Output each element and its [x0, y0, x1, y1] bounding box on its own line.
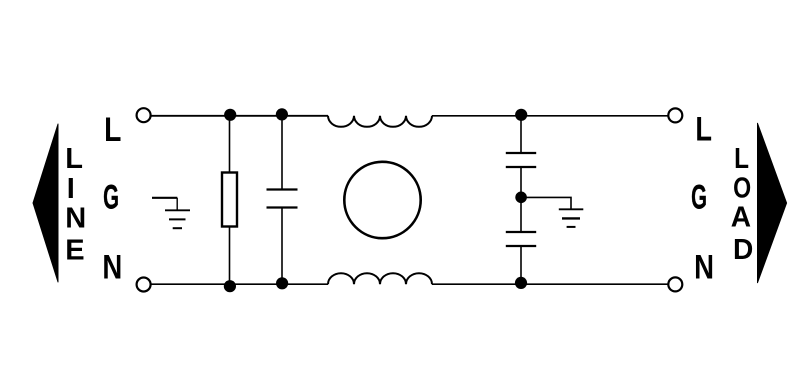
wire bottom rail right (choke to terminal) [432, 283, 668, 285]
label LOAD (vertical) [731, 142, 754, 266]
capacitor CX1 (X-capacitor) [267, 190, 298, 208]
wire to left chassis ground [152, 197, 177, 199]
label LINE (vertical) [65, 143, 86, 267]
capacitor CY1 (Y-capacitor top) [506, 153, 536, 167]
svg-text:G: G [103, 178, 119, 216]
svg-text:L: L [695, 110, 712, 149]
junction dot Y-cap midpoint [515, 192, 527, 204]
junction dot bottom rail / Y-cap [515, 277, 527, 289]
terminal load-out N (open circle) [668, 277, 682, 291]
wire Y-cap middle [520, 167, 522, 232]
chassis ground (left) [165, 210, 190, 228]
resistor R1 (bleeder) [222, 173, 237, 227]
wire Y-cap midpoint to right chassis ground [521, 197, 571, 209]
wire resistor branch bottom [229, 226, 231, 284]
svg-text:L: L [734, 142, 749, 174]
terminal line-in L (open circle) [137, 108, 151, 122]
svg-text:A: A [731, 201, 751, 233]
svg-text:D: D [733, 234, 753, 266]
wire bottom rail left (terminal to choke) [151, 283, 329, 285]
chassis ground (right) [559, 209, 584, 227]
svg-text:E: E [65, 235, 84, 267]
terminal line-in N (open circle) [137, 278, 151, 292]
choke L1 bottom winding (4 arcs bulging up) [328, 273, 432, 284]
capacitor CY2 (Y-capacitor bottom) [506, 232, 536, 246]
choke L1 toroid core (circle) [344, 162, 420, 238]
terminal load-out L (open circle) [668, 108, 682, 122]
svg-text:N: N [102, 248, 122, 286]
wire top rail left (terminal to choke) [151, 115, 329, 117]
svg-text:G: G [691, 178, 707, 216]
LOAD arrow (right, pointing right) [758, 123, 787, 282]
junction dot top rail / Y-cap [515, 109, 527, 121]
svg-text:O: O [733, 171, 751, 204]
svg-text:L: L [104, 111, 121, 149]
svg-text:L: L [65, 143, 83, 175]
wire resistor branch top [229, 116, 231, 173]
wire X-cap branch bottom [281, 208, 283, 285]
wire left ground stub [176, 198, 178, 210]
junction dot top rail / resistor [224, 109, 236, 121]
junction dot top rail / X-cap [276, 108, 288, 120]
svg-text:N: N [694, 248, 714, 286]
LINE arrow (left, pointing left) [33, 124, 58, 282]
wire X-cap branch top [281, 116, 283, 190]
wire top rail right (choke to terminal) [432, 115, 668, 117]
choke L1 top winding (4 arcs bulging down) [328, 116, 432, 127]
junction dot bottom rail / X-cap [276, 277, 288, 289]
wire Y-cap branch bottom [520, 246, 522, 284]
svg-text:N: N [65, 203, 86, 235]
svg-text:I: I [67, 173, 75, 205]
junction dot bottom rail / resistor [224, 280, 236, 292]
wire Y-cap branch top [520, 116, 522, 153]
